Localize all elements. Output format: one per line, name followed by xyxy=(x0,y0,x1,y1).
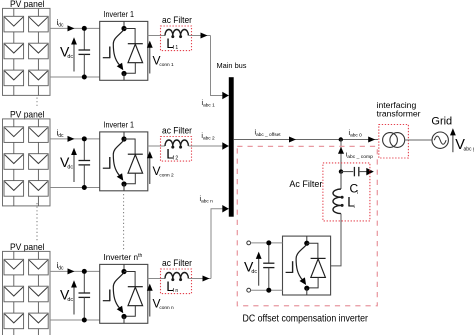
PV panel row2 cells xyxy=(4,119,48,206)
svg-text:Li: Li xyxy=(347,195,355,211)
stub top Uc xyxy=(306,236,308,243)
PV panel row2 box xyxy=(3,119,51,206)
ac Filter dotted box row3 xyxy=(161,269,192,294)
wire from diode bottom Un xyxy=(124,306,135,317)
wire to diode top Un xyxy=(124,272,135,287)
terminal + comp xyxy=(247,241,251,245)
arrow i_abc_comp xyxy=(338,147,344,154)
inductor Li xyxy=(333,172,344,214)
Ac Filter inner dotted box xyxy=(323,163,370,221)
inverter box Uc xyxy=(283,236,331,295)
arrow i_dc row2 xyxy=(68,136,75,142)
svg-text:transformer: transformer xyxy=(377,109,421,119)
wire filter1 out xyxy=(188,35,210,37)
node bottom U2 xyxy=(121,181,126,186)
main bus bar xyxy=(229,77,234,217)
svg-text:ac Filter: ac Filter xyxy=(162,15,192,25)
svg-text:Inverter 1: Inverter 1 xyxy=(104,9,135,19)
svg-text:ac Filter: ac Filter xyxy=(162,258,192,268)
arrow i_abc_offset xyxy=(289,137,296,143)
IGBT Uc xyxy=(286,244,307,285)
IGBT U2 xyxy=(103,140,124,181)
node comp dc+ xyxy=(266,240,271,245)
arrow filter-n out xyxy=(203,276,210,282)
dots continuation row2-3 panel b xyxy=(36,203,38,241)
PV panel row1 box xyxy=(3,8,51,95)
node dc- row1 xyxy=(82,75,87,80)
arrow into bus row1 xyxy=(222,92,229,100)
node top Uc xyxy=(304,241,309,246)
capacitor comp dc-link xyxy=(263,243,274,290)
inverter box U2 xyxy=(100,132,148,191)
wire from diode bottom U2 xyxy=(124,173,135,184)
stub top Un xyxy=(123,264,125,271)
V_abcg arrow xyxy=(450,128,456,152)
V_dc arrow row1 xyxy=(71,37,77,71)
arrow Ci out xyxy=(366,168,374,176)
capacitor dc-link row1 xyxy=(79,28,91,77)
PV panel row3 cells xyxy=(4,251,48,335)
wire dc- row1 xyxy=(50,76,100,78)
wire dc- row2 xyxy=(50,187,100,189)
inverter box U1 xyxy=(100,21,148,80)
wire feed-n up xyxy=(211,209,229,279)
stub bottom Uc xyxy=(306,288,308,295)
wire dc+ row3 xyxy=(50,270,100,272)
svg-text:Grid: Grid xyxy=(431,116,452,128)
ac Filter dotted box row1 xyxy=(161,26,192,51)
node dc- row2 xyxy=(82,185,87,190)
svg-text:Ac Filter: Ac Filter xyxy=(289,179,322,189)
node bottom U1 xyxy=(121,71,126,76)
inverter box Un xyxy=(100,264,148,323)
stub bottom U1 xyxy=(123,74,125,81)
node comp xyxy=(339,169,343,173)
capacitor dc-link row2 xyxy=(79,139,91,188)
arrow i_dc row3 xyxy=(68,268,75,274)
transformer T1 xyxy=(383,133,405,148)
arrow into bus row-n xyxy=(222,205,229,213)
wire dc+ row1 xyxy=(50,27,100,29)
node dc+ row1 xyxy=(82,26,87,31)
inductor Lf coil row1 xyxy=(165,29,188,38)
node dc- row3 xyxy=(82,318,87,323)
inductor Lf coil row2 xyxy=(165,140,188,149)
node top U2 xyxy=(121,136,126,141)
svg-text:Main bus: Main bus xyxy=(217,61,247,70)
wire to diode top U1 xyxy=(124,29,135,44)
IGBT U1 xyxy=(103,30,124,71)
svg-text:Inverter nth: Inverter nth xyxy=(104,253,143,262)
wire to diode top Uc xyxy=(307,243,318,258)
V_conn arrow row1 xyxy=(147,41,153,74)
transformer dotted box xyxy=(379,125,409,159)
dots continuation row1-2 panel xyxy=(36,98,38,108)
wire from diode bottom U1 xyxy=(124,63,135,73)
svg-text:DC offset compensation inverte: DC offset compensation inverter xyxy=(243,314,369,325)
wire Li to comp inverter xyxy=(331,214,341,266)
terminal - comp xyxy=(247,288,251,292)
wire inverter1 to filter xyxy=(148,35,165,37)
diode U1 xyxy=(128,44,143,63)
wire comp dc+ xyxy=(251,242,283,244)
wire filter-n out xyxy=(188,278,211,280)
inductor Lf coil row3 xyxy=(165,273,188,282)
V_conn arrow row2 xyxy=(147,151,153,184)
wire inverter-n to filter xyxy=(148,278,165,280)
wire bus to transformer xyxy=(234,139,378,141)
node top Un xyxy=(121,269,126,274)
svg-text:Inverter 1: Inverter 1 xyxy=(104,119,135,129)
capacitor Ci xyxy=(341,167,367,176)
stub bottom U2 xyxy=(123,184,125,191)
wire filter2 to bus xyxy=(188,145,228,147)
wire to diode top U2 xyxy=(124,139,135,154)
PV panel row3 box xyxy=(3,251,51,335)
wire comp branch down xyxy=(340,140,342,172)
PV panel row1 cells xyxy=(4,8,48,95)
node i_abc0 xyxy=(339,137,343,141)
wire transformer to grid xyxy=(405,139,432,141)
node dc+ row3 xyxy=(82,269,87,274)
svg-text:PV panel: PV panel xyxy=(10,110,45,120)
capacitor dc-link row3 xyxy=(79,271,91,320)
wire comp dc- xyxy=(251,289,283,291)
wire feed1 down xyxy=(211,36,229,96)
stub top U1 xyxy=(123,21,125,28)
wire inverter2 to filter xyxy=(148,145,165,147)
grid AC source xyxy=(432,132,448,148)
V_dc arrow comp xyxy=(256,252,262,286)
stub bottom Un xyxy=(123,317,125,324)
IGBT Un xyxy=(103,273,124,314)
node top U1 xyxy=(121,26,126,31)
arrow filter1 out xyxy=(201,33,208,39)
arrow before transformer xyxy=(368,137,375,143)
node dc+ row2 xyxy=(82,136,87,141)
wire from diode bottom Uc xyxy=(307,277,318,288)
V_dc arrow row3 xyxy=(71,280,77,314)
DC offset compensation inverter dashed box xyxy=(237,146,377,305)
svg-text:PV panel: PV panel xyxy=(10,0,45,9)
wire dc+ row2 xyxy=(50,138,100,140)
diode Uc xyxy=(311,258,326,277)
dots continuation row2-3 inverter xyxy=(123,194,125,250)
svg-text:PV panel: PV panel xyxy=(10,242,45,252)
V_dc arrow row2 xyxy=(71,148,77,182)
node bottom Un xyxy=(121,314,126,319)
arrow into bus row2 xyxy=(222,142,229,150)
node comp dc- xyxy=(266,288,271,293)
diode U2 xyxy=(128,154,143,173)
arrow i_dc row1 xyxy=(68,25,75,31)
stub top U2 xyxy=(123,132,125,139)
V_conn arrow row3 xyxy=(147,284,153,317)
node bottom Uc xyxy=(304,286,309,291)
svg-text:ac Filter: ac Filter xyxy=(162,126,192,136)
wire dc- row3 xyxy=(50,319,100,321)
diode Un xyxy=(128,287,143,306)
ac Filter dotted box row2 xyxy=(161,137,192,162)
